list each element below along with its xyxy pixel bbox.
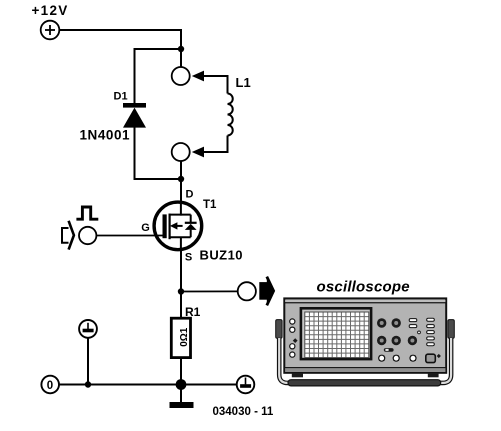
bail wire right xyxy=(438,338,451,383)
foot right xyxy=(428,373,439,377)
wire output xyxy=(181,290,238,292)
slider switch xyxy=(384,348,394,352)
bail grip bar xyxy=(288,380,441,386)
bail wire left xyxy=(279,338,292,383)
oscilloscope body xyxy=(284,298,446,372)
svg-text:0: 0 xyxy=(47,380,53,392)
tiny circle decor xyxy=(418,331,421,334)
foot left xyxy=(292,373,303,377)
terminal ground left xyxy=(79,320,97,338)
terminal 0 xyxy=(41,376,59,394)
diode D1 1N4001 xyxy=(123,103,146,128)
terminal output xyxy=(238,282,256,300)
square button xyxy=(426,354,436,362)
wire diode to bottom junction xyxy=(135,127,182,179)
arrow into L1 bottom terminal xyxy=(192,147,204,158)
decor diamond left xyxy=(293,338,298,343)
terminal L1 bottom xyxy=(172,143,190,161)
svg-text:L1: L1 xyxy=(236,75,251,90)
node junction top xyxy=(178,46,184,52)
button slots middle column xyxy=(409,319,417,328)
wire to diode branch xyxy=(135,49,182,103)
wire top rail xyxy=(59,30,181,67)
wire drain xyxy=(180,161,182,203)
oscilloscope left handle xyxy=(276,320,282,339)
arrow into L1 top terminal xyxy=(192,71,204,82)
svg-text:BUZ10: BUZ10 xyxy=(200,248,243,263)
node junction output xyxy=(178,288,184,294)
body diode branch xyxy=(190,215,192,222)
drain stub inside xyxy=(180,203,182,216)
wire source down xyxy=(180,249,182,318)
ground xyxy=(170,402,194,408)
channel line xyxy=(169,214,171,240)
oscilloscope knobs row1 xyxy=(377,318,401,327)
oscilloscope knobs row2 xyxy=(377,336,417,345)
wire bottom rail xyxy=(59,384,238,386)
terminal L1 top xyxy=(172,67,190,85)
svg-text:D1: D1 xyxy=(114,91,128,103)
wire L1 bottom xyxy=(203,136,228,153)
svg-text:D: D xyxy=(186,189,194,201)
decor diamond right xyxy=(437,354,441,358)
node junction rail left xyxy=(85,381,91,387)
oscilloscope left buttons xyxy=(290,319,295,357)
resistor R1 xyxy=(171,318,190,357)
pulse symbol xyxy=(76,207,98,219)
terminal +12V xyxy=(41,21,60,40)
top stub xyxy=(169,214,191,216)
oscilloscope right handle xyxy=(448,320,454,339)
input arrow xyxy=(62,228,69,243)
wire gate xyxy=(96,235,162,237)
source stub inside xyxy=(180,237,182,250)
bottom stub xyxy=(169,236,191,238)
svg-text:S: S xyxy=(185,251,192,263)
wire L1 top xyxy=(203,76,228,94)
button slots right column xyxy=(427,318,435,345)
bulk arrow xyxy=(175,225,183,227)
svg-text:0Ω1: 0Ω1 xyxy=(179,327,190,347)
transistor T1 MOSFET xyxy=(154,202,202,250)
connectors row3 xyxy=(379,355,416,361)
inductor L1 xyxy=(228,94,233,136)
svg-text:1N4001: 1N4001 xyxy=(80,128,131,143)
wire to ground terminal xyxy=(87,337,89,384)
gate plate xyxy=(163,214,167,238)
terminal ground right xyxy=(237,376,255,394)
svg-text:R1: R1 xyxy=(185,305,201,319)
svg-text:+12V: +12V xyxy=(32,3,69,18)
output arrow xyxy=(260,283,267,299)
oscilloscope screen xyxy=(301,308,371,359)
node big junction xyxy=(176,379,187,390)
node junction mid xyxy=(178,176,184,182)
svg-text:oscilloscope: oscilloscope xyxy=(317,279,410,296)
svg-text:G: G xyxy=(141,222,150,234)
svg-text:T1: T1 xyxy=(203,199,217,211)
wire resistor to rail xyxy=(180,358,182,385)
svg-text:034030 - 11: 034030 - 11 xyxy=(213,406,274,418)
wire to ground bar xyxy=(180,385,182,403)
terminal gate input xyxy=(79,227,96,244)
